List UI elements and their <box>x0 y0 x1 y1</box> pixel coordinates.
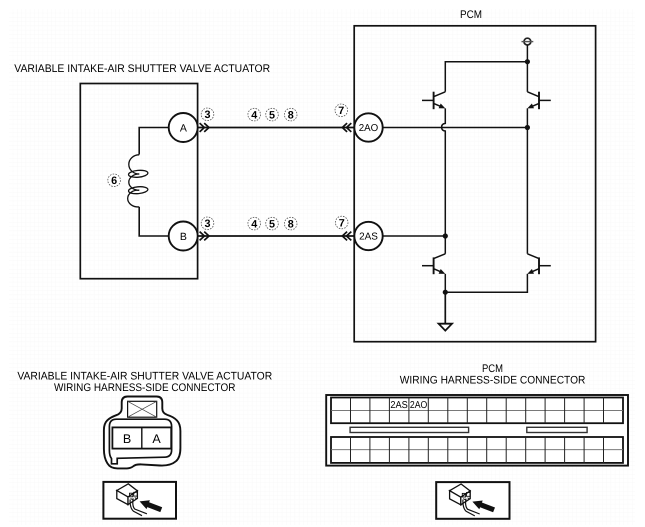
callout 3 (B row) <box>201 217 214 230</box>
wire to ground <box>444 292 446 323</box>
transistor Q2 (top right) <box>527 92 551 110</box>
wire power to rail <box>526 45 528 62</box>
svg-text:PCM: PCM <box>482 363 503 375</box>
svg-text:6: 6 <box>111 175 117 187</box>
connector chevrons at 2AS <box>342 232 351 241</box>
power supply symbol <box>522 38 534 45</box>
icon PCM connector (art) <box>450 484 495 516</box>
wire power rail <box>445 62 527 92</box>
callout 8 (A row) <box>284 108 297 121</box>
wire right column <box>526 108 528 253</box>
svg-text:5: 5 <box>269 219 275 231</box>
callout 5 (B row) <box>266 217 279 230</box>
terminal label A <box>152 432 161 446</box>
svg-text:2AO: 2AO <box>359 123 379 134</box>
connector chevrons at B <box>200 232 209 241</box>
label: actuator connector title line 1 <box>17 370 272 382</box>
callout 4 (B row) <box>248 217 261 230</box>
svg-text:5: 5 <box>269 110 275 122</box>
node ground junction <box>443 290 448 295</box>
callout 7 (A row) <box>335 104 348 117</box>
callout 6 <box>108 174 121 187</box>
terminal label B <box>123 432 131 446</box>
svg-text:2AS: 2AS <box>359 232 378 243</box>
pin 2AS <box>354 222 382 250</box>
svg-text:2AS: 2AS <box>390 400 408 411</box>
actuator terminal block <box>112 427 171 448</box>
wire coil to terminal B <box>139 207 169 236</box>
wire left column upper (with no-connect hop) <box>442 108 446 236</box>
label: VARIABLE INTAKE-AIR SHUTTER VALVE ACTUATOR (top title) <box>14 63 270 75</box>
label: PCM (top) <box>460 9 482 21</box>
callout 4 (A row) <box>248 108 261 121</box>
wire B to PCM (2AS) <box>198 235 355 237</box>
svg-text:7: 7 <box>338 105 344 117</box>
label: actuator connector title line 2 <box>54 382 235 394</box>
svg-text:B: B <box>180 231 187 243</box>
callout 3 (A row) <box>201 108 214 121</box>
actuator box <box>80 84 197 279</box>
pin 2AO <box>354 113 382 141</box>
svg-text:3: 3 <box>204 109 210 121</box>
PCM connector slot bar left <box>350 427 469 432</box>
wire A to PCM (2AO) <box>198 127 355 129</box>
callout 5 (A row) <box>266 108 279 121</box>
svg-text:PCM: PCM <box>460 9 482 21</box>
PCM connector slot bar right <box>527 427 587 432</box>
transistor Q1 (top left) <box>422 92 445 110</box>
PCM box <box>354 26 595 342</box>
node 2AO junction <box>525 125 530 130</box>
callout 8 (B row) <box>284 217 297 230</box>
actuator connector inner outline <box>109 419 171 464</box>
svg-text:8: 8 <box>288 219 294 231</box>
transistor Q4 (bottom right) <box>527 254 551 274</box>
wire left column lower <box>444 236 446 254</box>
svg-text:VARIABLE INTAKE-AIR SHUTTER VA: VARIABLE INTAKE-AIR SHUTTER VALVE ACTUAT… <box>17 370 272 382</box>
connector chevrons at 2AO <box>342 123 351 132</box>
wire emitters to ground node <box>445 274 527 292</box>
svg-text:2AO: 2AO <box>410 400 428 411</box>
PCM harness connector outer body <box>326 395 628 466</box>
transistor Q3 (bottom left) <box>422 254 445 274</box>
terminal A <box>169 113 198 142</box>
svg-text:WIRING HARNESS-SIDE CONNECTOR: WIRING HARNESS-SIDE CONNECTOR <box>54 382 235 394</box>
wire top-right collector drop <box>526 62 528 92</box>
PCM connector top pin grid <box>331 398 623 424</box>
pin label 2AO <box>410 400 428 411</box>
wire terminal A to coil <box>139 128 169 155</box>
terminal B <box>169 222 198 251</box>
svg-text:4: 4 <box>251 110 257 122</box>
svg-text:WIRING HARNESS-SIDE CONNECTOR: WIRING HARNESS-SIDE CONNECTOR <box>400 375 586 387</box>
svg-text:4: 4 <box>251 219 257 231</box>
coil L (6) <box>128 155 148 207</box>
actuator harness connector outer body <box>104 397 180 469</box>
connector chevrons at A <box>200 123 209 132</box>
svg-text:VARIABLE INTAKE-AIR SHUTTER VA: VARIABLE INTAKE-AIR SHUTTER VALVE ACTUAT… <box>14 63 270 75</box>
svg-text:A: A <box>152 432 161 446</box>
label: PCM (bottom title) <box>482 363 503 375</box>
wire 2AS into PCM <box>383 235 445 237</box>
wire 2AO into PCM <box>383 127 528 129</box>
label: PCM connector title line 2 <box>400 375 586 387</box>
callout 7 (B row) <box>335 216 348 229</box>
icon PCM connector (box) <box>436 482 509 519</box>
actuator connector keyway tab with X <box>128 401 157 417</box>
svg-text:B: B <box>123 432 131 446</box>
icon actuator connector (box) <box>103 482 176 519</box>
node power junction <box>525 59 530 64</box>
svg-text:7: 7 <box>339 217 345 229</box>
svg-text:A: A <box>180 122 187 134</box>
PCM connector bottom pin grid <box>331 437 623 463</box>
pin label 2AS <box>390 400 408 411</box>
node 2AS junction <box>443 233 448 238</box>
icon actuator connector (art) <box>117 484 162 516</box>
ground <box>439 324 452 331</box>
svg-text:8: 8 <box>288 110 294 122</box>
svg-text:3: 3 <box>204 218 210 230</box>
